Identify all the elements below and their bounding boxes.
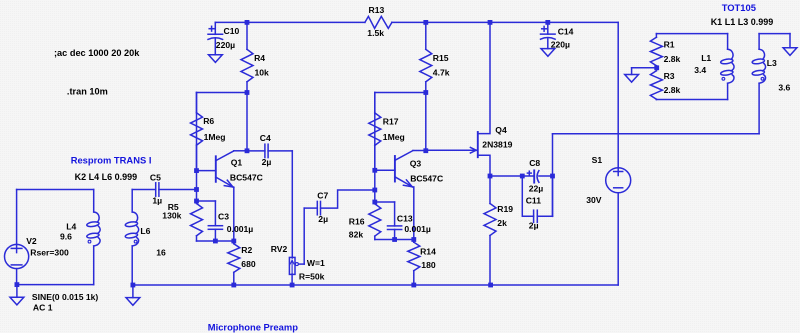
svg-text:C4: C4 [260, 133, 271, 143]
svg-text:BC547C: BC547C [230, 172, 263, 182]
svg-text:RV2: RV2 [271, 244, 288, 254]
wire C7 to RV2 wiper [303, 208, 305, 264]
node junction C3 bottom [213, 239, 218, 244]
capacitor C7 [304, 190, 375, 224]
resistor R19 [484, 176, 513, 285]
node junction C5 right / base column [194, 187, 199, 192]
node junction R2 bottom on ground rail [231, 283, 236, 288]
resistor R2 [228, 241, 256, 285]
resistor R15 [420, 22, 450, 92]
svg-text:3.4: 3.4 [694, 65, 706, 75]
wire R15 junction to Q3 collector [425, 93, 427, 151]
voltage source V2 [5, 190, 99, 313]
wire Q3 emitter down [413, 187, 415, 240]
svg-text:2N3819: 2N3819 [482, 139, 512, 149]
svg-text:;ac dec 1000 20 20k: ;ac dec 1000 20 20k [54, 48, 140, 58]
wire top supply rail left segment [215, 21, 365, 23]
transistor Q3 [376, 151, 444, 188]
svg-text:22µ: 22µ [529, 184, 544, 194]
inductor L3 [752, 34, 791, 134]
svg-text:Q4: Q4 [495, 125, 507, 135]
node junction Q1 collector / C4 [245, 148, 250, 153]
ground at R1 R3 midpoint [625, 75, 639, 83]
node junction emitter R14 top [411, 237, 416, 242]
svg-text:82k: 82k [349, 230, 364, 240]
wire Q1 base column [196, 93, 198, 202]
node junction L6 ground [131, 283, 136, 288]
node junction top rail at C14 [545, 20, 550, 25]
capacitor C5 [132, 172, 196, 205]
svg-text:10k: 10k [255, 67, 270, 77]
node junction top rail at Q4 drain [488, 20, 493, 25]
svg-text:R6: R6 [203, 116, 214, 126]
svg-text:680: 680 [241, 259, 256, 269]
capacitor C11 [522, 176, 552, 231]
svg-text:L1: L1 [701, 53, 711, 63]
node junction R19 bottom on rail [488, 283, 493, 288]
node junction R14 bottom on rail [411, 283, 416, 288]
svg-text:Microphone Preamp: Microphone Preamp [208, 321, 298, 332]
resistor R3 [650, 68, 680, 100]
resistor R17 [369, 93, 405, 171]
voltage source S1 [586, 155, 631, 285]
transistor Q1 [197, 151, 263, 188]
svg-text:30V: 30V [586, 195, 602, 205]
svg-text:0.001µ: 0.001µ [227, 224, 254, 234]
svg-text:Q1: Q1 [231, 158, 243, 168]
svg-text:L4: L4 [66, 221, 76, 231]
svg-text:BC547C: BC547C [410, 173, 443, 183]
svg-text:1µ: 1µ [152, 196, 162, 206]
spice directive K1 [711, 17, 774, 27]
ground below C10 [209, 55, 223, 63]
node junction base column R5 top [194, 199, 199, 204]
wire output C8 to L3 [553, 134, 760, 217]
svg-text:130k: 130k [162, 210, 181, 220]
svg-text:2.8k: 2.8k [664, 54, 681, 64]
label TOT105 [722, 2, 756, 13]
svg-text:220µ: 220µ [216, 40, 235, 50]
wire R4 bottom to R6 top [197, 92, 248, 94]
resistor R4 [241, 22, 269, 92]
wire R16 C13 bottoms to emitter [375, 239, 414, 241]
node junction Q1 base [194, 168, 199, 173]
svg-text:S1: S1 [592, 155, 603, 165]
svg-text:1.5k: 1.5k [367, 28, 384, 38]
node junction C8 right / output [550, 174, 555, 179]
ground below V2 [10, 285, 24, 305]
inductor L1 [694, 34, 734, 100]
svg-text:C10: C10 [224, 26, 240, 36]
node junction R1 R3 midpoint [654, 65, 659, 70]
svg-text:2.8k: 2.8k [664, 85, 681, 95]
node junction C8 left / C11 branch [520, 174, 525, 179]
node junction top rail at R15 [423, 20, 428, 25]
ground at L3 top [783, 48, 797, 56]
ground below C14 [541, 49, 555, 57]
wire R15 bottom to R17 top [375, 92, 426, 94]
svg-text:Q3: Q3 [410, 159, 422, 169]
wire V2 top to L4 top [17, 189, 94, 191]
svg-text:K1 L1 L3 0.999: K1 L1 L3 0.999 [711, 17, 774, 27]
svg-text:TOT105: TOT105 [722, 2, 756, 13]
svg-text:K2 L4 L6 0.999: K2 L4 L6 0.999 [75, 172, 138, 182]
capacitor C8 [490, 158, 553, 194]
inductor L4 [60, 190, 100, 285]
svg-text:1Meg: 1Meg [383, 132, 405, 142]
wire R4 junction down to Q1 collector node [246, 93, 248, 151]
spice directive ac [54, 48, 140, 58]
svg-text:9.6: 9.6 [60, 232, 72, 242]
spice directive tran [67, 86, 108, 96]
svg-text:2µ: 2µ [262, 157, 272, 167]
inductor L6 [125, 190, 166, 286]
wire R3 bottom to L1 bottom [656, 99, 727, 101]
resistor R5 [162, 201, 202, 241]
resistor R13 [365, 5, 392, 38]
node junction V2 ground [15, 282, 20, 287]
node junction emitter R2 top [231, 239, 236, 244]
svg-text:SINE(0 0.015 1k): SINE(0 0.015 1k) [32, 292, 99, 302]
svg-text:C5: C5 [150, 172, 161, 182]
capacitor C14 [541, 22, 574, 49]
svg-text:1Meg: 1Meg [204, 132, 226, 142]
wire top rail down to S1 [617, 22, 619, 167]
capacitor C13 [375, 202, 431, 240]
svg-text:3.6: 3.6 [778, 82, 790, 92]
wire R5 C3 bottoms to emitter [197, 240, 234, 242]
label Resprom TRANS I [71, 154, 152, 165]
svg-text:C3: C3 [218, 211, 229, 221]
svg-text:2µ: 2µ [318, 214, 328, 224]
svg-text:R2: R2 [241, 245, 252, 255]
svg-text:W=1: W=1 [307, 258, 325, 268]
ground below L6 [126, 285, 140, 305]
wire Q1 emitter down to R2 [233, 187, 235, 241]
svg-text:R3: R3 [664, 71, 675, 81]
wire primary bottom [17, 284, 94, 286]
node junction Q3 base [372, 168, 377, 173]
wire C4 to RV2 top [291, 151, 293, 258]
svg-text:R1: R1 [664, 39, 675, 49]
label Microphone Preamp [208, 321, 298, 332]
svg-text:R=50k: R=50k [299, 271, 325, 281]
resistor R14 [408, 240, 436, 286]
wire top supply rail right segment [392, 21, 618, 23]
svg-text:AC 1: AC 1 [33, 302, 53, 312]
node junction top rail at R4 [245, 20, 250, 25]
svg-text:V2: V2 [26, 236, 37, 246]
svg-text:C7: C7 [317, 190, 328, 200]
node junction R16 top [372, 200, 377, 205]
node junction Q3 collector [423, 148, 428, 153]
transistor Q4 [426, 22, 513, 176]
svg-text:16: 16 [156, 247, 166, 257]
svg-text:C14: C14 [558, 26, 574, 36]
resistor R16 [349, 202, 381, 240]
capacitor C4 [247, 133, 292, 167]
capacitor C10 [208, 22, 239, 54]
node junction C13 bottom [392, 237, 397, 242]
svg-text:R16: R16 [349, 217, 365, 227]
svg-text:C8: C8 [529, 158, 540, 168]
svg-text:R4: R4 [254, 53, 265, 63]
svg-text:Rser=300: Rser=300 [30, 247, 69, 257]
svg-text:L6: L6 [140, 226, 150, 236]
wire Q3 base column [374, 93, 376, 203]
wire R1 top to L1 top [656, 33, 727, 35]
svg-text:C13: C13 [397, 214, 413, 224]
wire midpoint to ground [632, 68, 657, 75]
wire main ground rail [133, 284, 618, 286]
node junction R15 bottom [423, 90, 428, 95]
svg-text:R17: R17 [383, 117, 399, 127]
spice directive K2 [75, 172, 138, 182]
svg-text:180: 180 [421, 260, 436, 270]
svg-text:4.7k: 4.7k [433, 68, 450, 78]
svg-text:Resprom TRANS I: Resprom TRANS I [71, 154, 152, 165]
svg-text:2µ: 2µ [529, 221, 539, 231]
potentiometer RV2 [271, 244, 325, 285]
node junction Q4 source [488, 174, 493, 179]
node junction R4 bottom [245, 90, 250, 95]
svg-text:R13: R13 [369, 5, 385, 15]
capacitor C3 [197, 201, 254, 241]
svg-text:.tran 10m: .tran 10m [67, 86, 108, 96]
resistor R1 [650, 34, 680, 68]
svg-text:0.001µ: 0.001µ [404, 224, 431, 234]
svg-text:C11: C11 [526, 196, 542, 206]
svg-text:R15: R15 [433, 53, 449, 63]
node junction C7 wire [372, 188, 377, 193]
wire L3 top to ground [759, 34, 790, 48]
svg-text:2k: 2k [497, 218, 507, 228]
svg-text:R14: R14 [420, 247, 436, 257]
node junction RV2 bottom on rail [290, 283, 295, 288]
svg-text:R19: R19 [497, 204, 513, 214]
svg-text:L3: L3 [767, 58, 777, 68]
resistor R6 [191, 93, 226, 171]
